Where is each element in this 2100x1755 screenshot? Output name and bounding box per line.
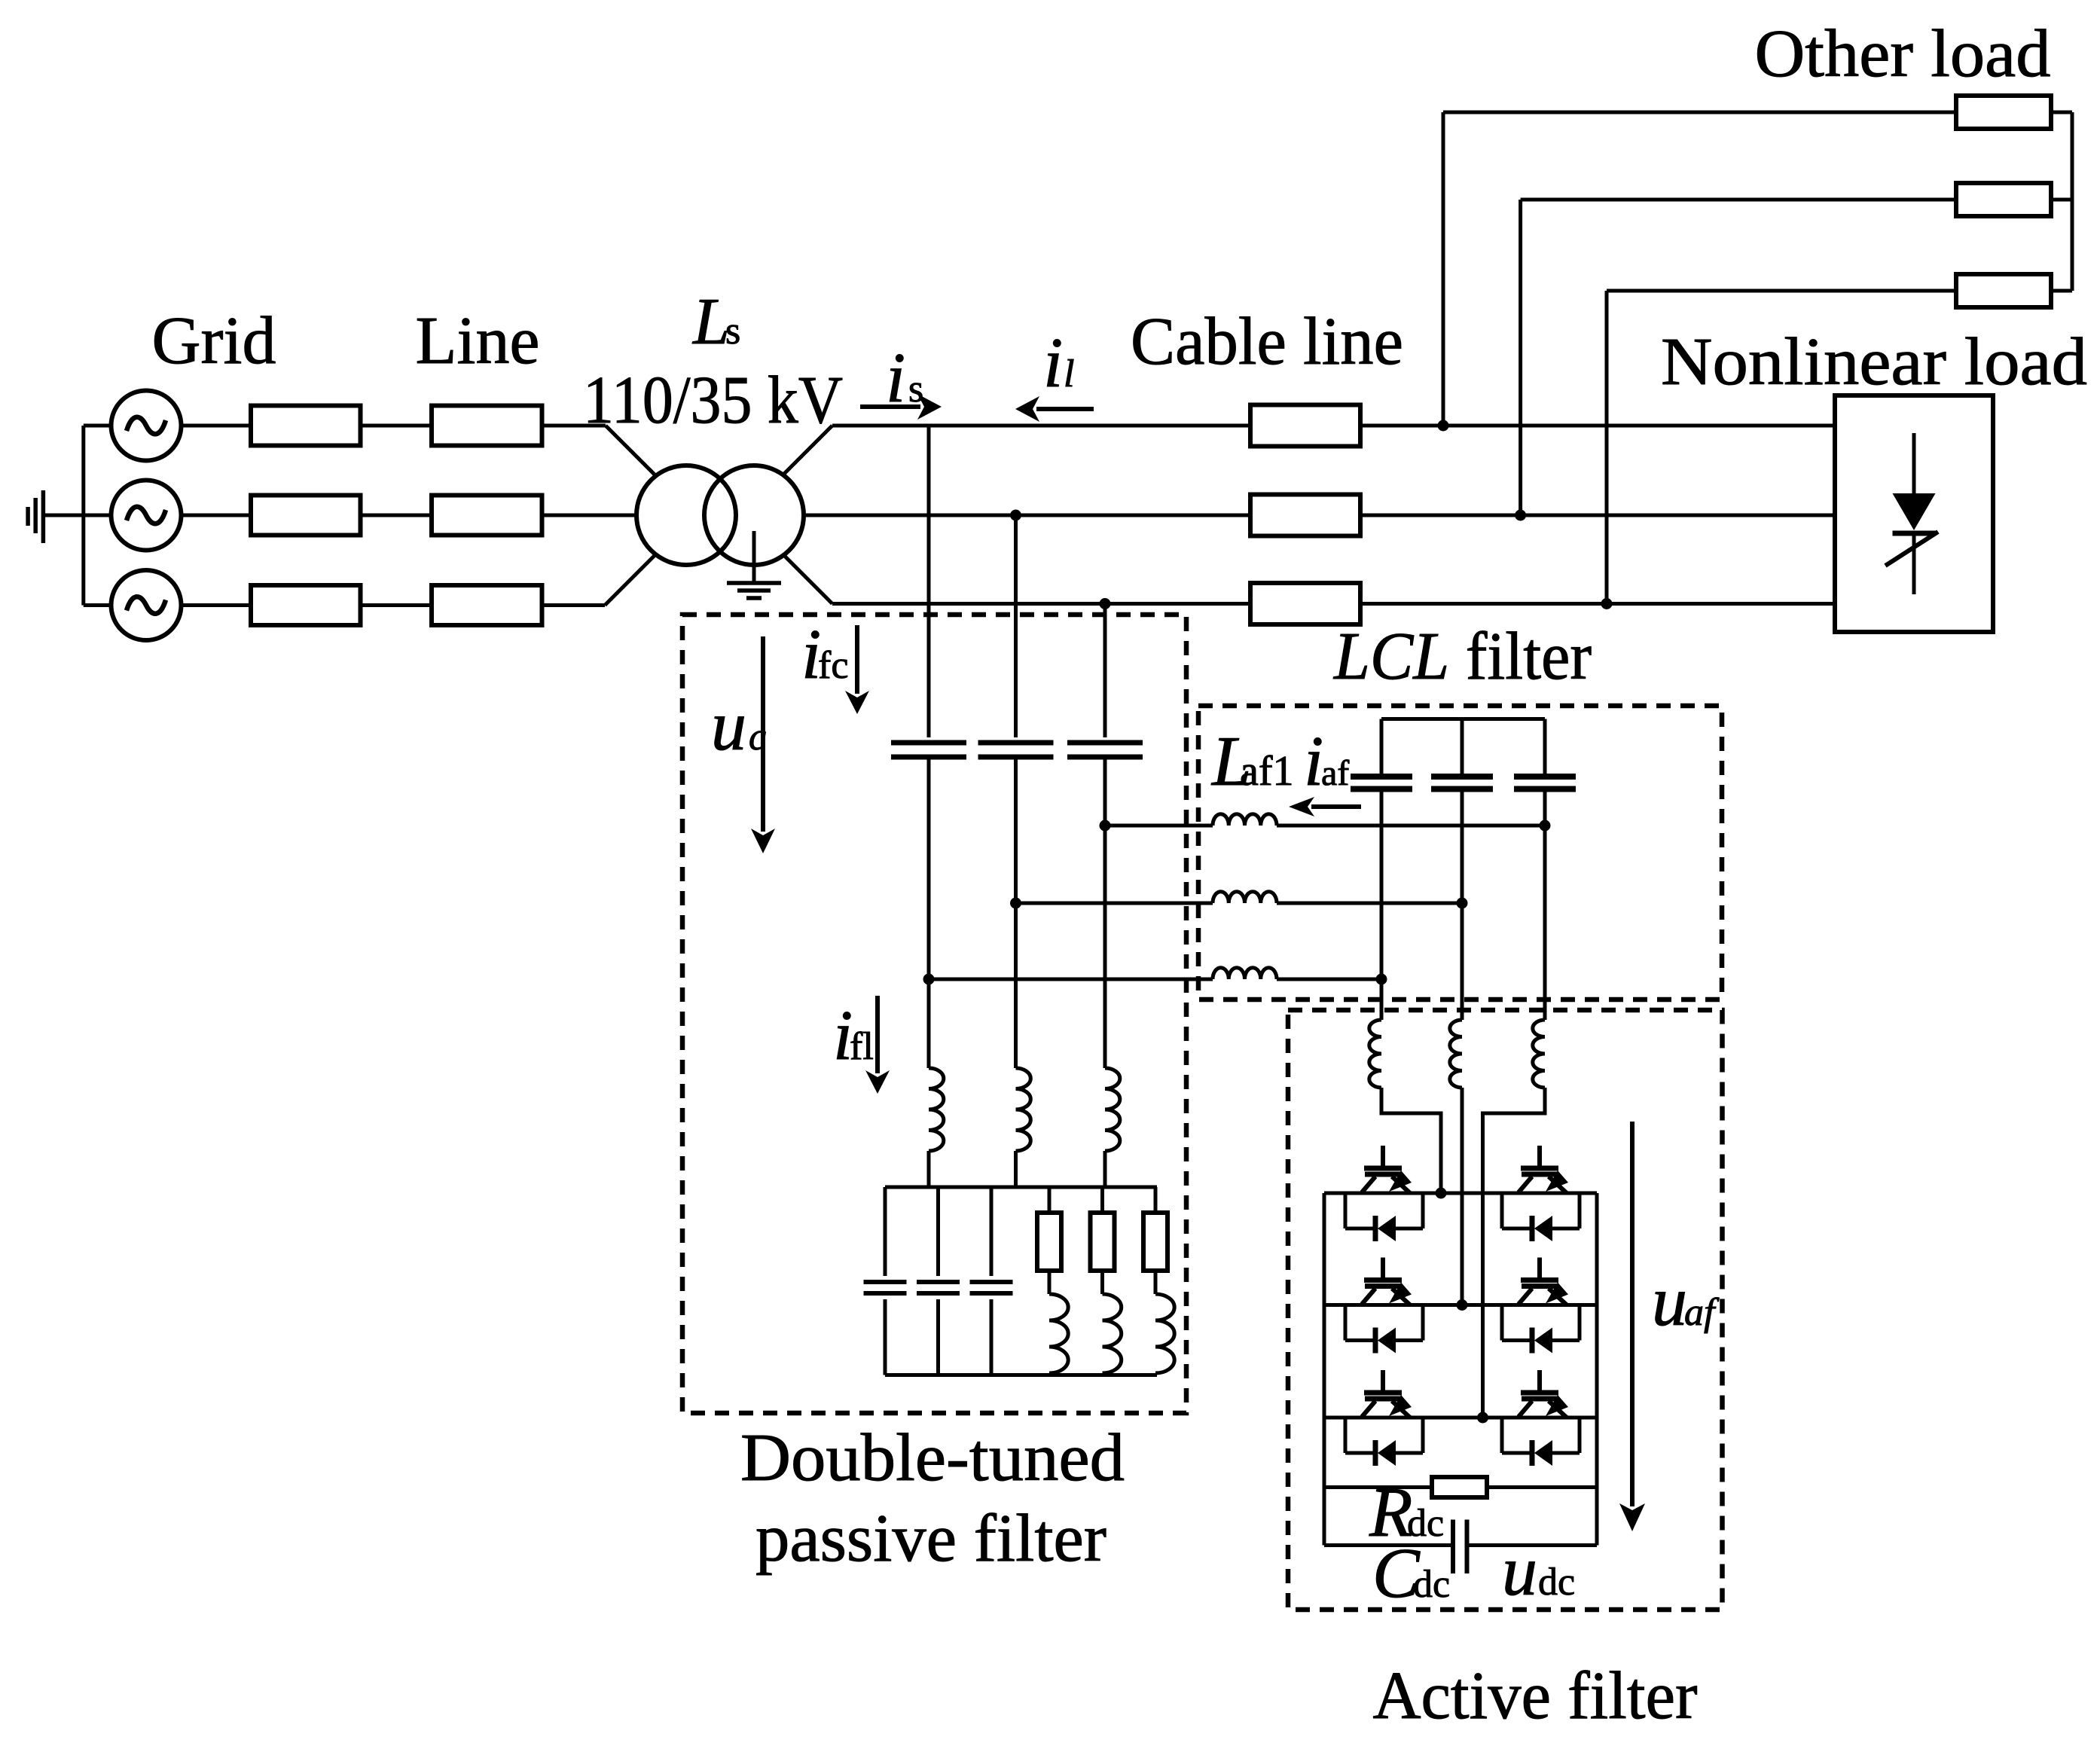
svg-text:s: s: [725, 310, 740, 353]
svg-text:u: u: [1652, 1262, 1687, 1341]
svg-text:passive filter: passive filter: [755, 1501, 1106, 1576]
svg-text:Double-tuned: Double-tuned: [740, 1421, 1125, 1495]
svg-text:fl: fl: [850, 1025, 874, 1068]
svg-text:af: af: [1684, 1291, 1720, 1334]
svg-text:Other load: Other load: [1755, 17, 2051, 91]
svg-text:fc: fc: [818, 644, 848, 687]
svg-text:dc: dc: [1538, 1561, 1575, 1604]
svg-text:i: i: [1043, 324, 1063, 402]
svg-text:l: l: [1064, 353, 1074, 395]
svg-text:Line: Line: [416, 304, 540, 378]
svg-text:LCL filter: LCL filter: [1332, 619, 1592, 694]
svg-text:L: L: [691, 285, 730, 359]
svg-text:i: i: [886, 339, 905, 417]
svg-text:Active filter: Active filter: [1373, 1659, 1698, 1733]
svg-text:dc: dc: [1413, 1563, 1450, 1606]
svg-text:Nonlinear load: Nonlinear load: [1661, 325, 2087, 399]
svg-text:af: af: [1321, 753, 1349, 793]
svg-text:Cable line: Cable line: [1131, 304, 1403, 379]
svg-text:s: s: [908, 368, 923, 411]
svg-text:110/35 kV: 110/35 kV: [583, 363, 843, 438]
svg-text:u: u: [1502, 1532, 1537, 1610]
svg-text:u: u: [711, 687, 746, 765]
svg-text:c: c: [749, 716, 766, 758]
svg-text:af1: af1: [1240, 748, 1294, 795]
svg-text:Grid: Grid: [152, 304, 276, 378]
